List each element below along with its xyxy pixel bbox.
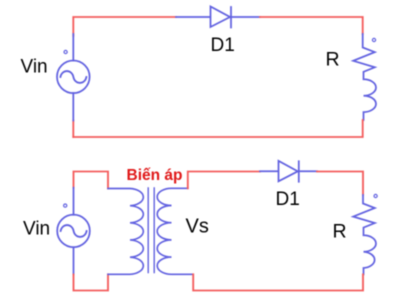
svg-text:R: R — [333, 221, 347, 243]
svg-text:Vin: Vin — [21, 57, 48, 78]
terminal dot of source Vin (top circuit) — [64, 50, 67, 53]
svg-text:R: R — [326, 49, 340, 71]
wire blue lead above source Vin (bottom circuit) — [73, 188, 75, 215]
wire blue lead below source Vin (bottom circuit) — [73, 247, 75, 274]
wire top-left red segment primary loop (bottom circuit) — [74, 172, 109, 189]
svg-text:Biến áp: Biến áp — [127, 167, 183, 184]
terminal dot of resistor R (top circuit) — [372, 38, 375, 41]
wire top blue segment into diode D1 (top circuit) — [176, 16, 210, 18]
terminal dot of resistor R (bottom circuit) — [374, 194, 377, 197]
wire top-right red segment (top circuit) — [260, 17, 363, 34]
wire bottom-left red segment (top circuit) — [72, 121, 74, 138]
AC source Vin (bottom circuit) — [57, 215, 90, 248]
transformer secondary winding (bottom circuit) — [157, 188, 193, 274]
AC source Vin (top circuit) — [57, 61, 90, 94]
wire bottom-right red segment (top circuit) — [73, 120, 362, 137]
resistor R with coil (top circuit) — [353, 34, 376, 120]
transformer primary winding (bottom circuit) — [108, 189, 143, 275]
wire bottom-right red segment (bottom circuit) — [193, 274, 363, 290]
wire red step up from secondary to top wire (bottom circuit) — [188, 172, 260, 189]
svg-text:D1: D1 — [211, 35, 235, 56]
svg-text:Vin: Vin — [23, 219, 50, 240]
wire blue segment right of diode (top circuit) — [231, 16, 260, 18]
terminal dot of source Vin (bottom circuit) — [64, 204, 67, 207]
wire top-left red segment (top circuit) — [73, 17, 176, 36]
wire blue segment into diode D1 (bottom circuit) — [260, 170, 278, 172]
diode D1 (top circuit) — [211, 7, 232, 28]
wire top-right red segment (bottom circuit) — [317, 172, 363, 196]
wire blue segment right of diode (bottom circuit) — [299, 170, 317, 172]
diode D1 (bottom circuit) — [279, 161, 299, 182]
svg-text:D1: D1 — [276, 189, 300, 210]
resistor R with coil (bottom circuit) — [353, 195, 376, 274]
wire blue lead above source Vin (top circuit) — [72, 34, 74, 61]
wire bottom-left red segment primary loop (bottom circuit) — [74, 274, 109, 290]
svg-text:Vs: Vs — [186, 216, 209, 238]
transformer core lines — [148, 188, 154, 273]
wire blue lead below source Vin (top circuit) — [72, 93, 74, 121]
